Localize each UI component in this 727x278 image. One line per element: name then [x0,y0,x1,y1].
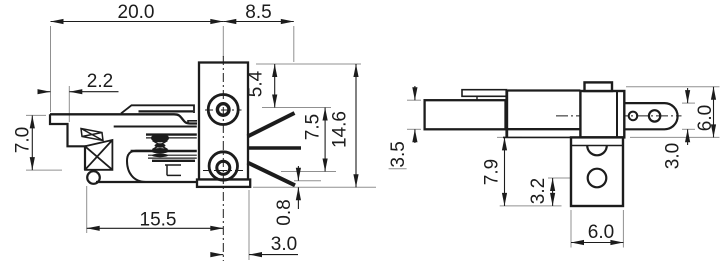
spring coil cross lines [153,141,168,150]
top edge notch at block joint [188,121,197,124]
svg-text:7.9: 7.9 [482,159,503,185]
spring coil ellipse 4 [152,154,168,158]
dimension 7.9 line [504,137,506,206]
contact bar y=158.1 [148,157,197,159]
dimension 20.0 line [51,21,224,23]
svg-text:14.6: 14.6 [330,111,351,148]
right-view extension y=103.1 (pin top, for right 3.0) [682,102,695,104]
upper eyelet inner circle [217,104,229,116]
front rivet circle [87,171,100,184]
contact step lines [165,164,181,166]
spring coil ellipse 3 [151,148,169,154]
right-view extension x=623.4 (for bottom 6.0) [622,210,624,248]
left-view extension line y=187.3 (bottom plane, for 0.8/14.6) [253,186,376,188]
left-view extension line x=249 (block right edge, for 3.0) [248,190,250,260]
left-view extension line x=86.7 (for 15.5) [86,186,88,233]
dimension 14.6 line [355,64,357,187]
dimension 0.8 line [297,166,299,181]
pin large circle [649,110,660,121]
left-view extension line y=180.7 (pin tip top, for 0.8) [294,180,321,182]
lower block notch semicircle [587,146,607,156]
left-view extension line y=171.5 (lower pin plane, for 7.5) [281,171,336,173]
right-view extension y=129.3 (barrel bottom, for 3.5) [389,168,407,170]
terminal block bottom flange [197,180,250,187]
dimension 7.0 line [31,115,33,170]
lower eyelet inner circle [217,161,230,174]
dimension 8.5 line [223,21,293,23]
right-view extension y=137.4 (block bottom, for right 6.0) [630,136,720,138]
lower eyelet outer circle [209,152,237,180]
contact bar y=134.6 [146,133,197,135]
terminal block body [199,63,248,180]
contact bar y=160.8 [152,160,195,162]
lower mount block [571,137,623,206]
barrel rectangle [425,100,506,129]
center block [580,91,624,137]
svg-text:15.5: 15.5 [140,210,177,231]
center block top tab [585,82,613,91]
upper eyelet outer circle [208,95,238,125]
lower eyelet crosshair [203,170,246,172]
center pin arm J-hook [127,151,151,182]
jack body lid chamfer+top [121,105,194,113]
dimension 15.5 line [87,227,224,229]
left-view extension line x=69.3 (front step face, for 2.2) [68,86,70,122]
dimension 6.0 right line [713,87,715,138]
horizontal dash-dot axis [556,115,682,117]
left-view extension line y=115.4 (body top, for 7.0) [26,114,46,116]
mid-section top line [508,89,580,91]
left-view extension line x=50.5 (body left edge, for 20.0) [50,26,52,112]
left-view extension line x=293.8 (pin tip plane, for 8.5) [293,26,295,62]
pin small circle [629,112,638,121]
lower block hole circle [588,169,607,188]
tab tick [476,96,478,100]
dimension 2.2 line [40,91,51,93]
left-view extension line y=64 (top plane, for 14.6/5.4) [256,63,361,65]
dimension 3.2 line [552,178,554,206]
dimension 7.5 line [324,108,326,172]
lower block band line [571,145,623,147]
spring coil ellipse 2 [155,143,166,147]
svg-text:20.0: 20.0 [118,2,155,23]
upper eyelet crosshair [205,109,242,111]
svg-text:3.5: 3.5 [388,141,409,167]
dimension 6.0 bottom line [571,242,623,244]
mid-section lower plane line [503,136,580,138]
center block inner line [616,91,618,137]
svg-text:3.0: 3.0 [271,234,297,255]
flange vertical line [505,90,508,138]
contact bar y=155.2 [148,154,197,156]
contact bar y=151 [131,150,197,152]
svg-text:7.0: 7.0 [13,127,34,153]
right-view extension y=129.3 (pin bottom, for right 3.0) [682,128,695,130]
jack body bottom edge [96,181,197,183]
svg-text:2.2: 2.2 [87,71,113,92]
spring contact box with X brace [85,140,112,170]
right-view extension y=205.9 (lower block bottom, for 7.9/3.2) [500,205,562,207]
svg-text:7.5: 7.5 [303,114,324,140]
right-view extension y=100.2 (barrel top, for 3.5) [407,99,421,101]
svg-text:6.0: 6.0 [588,222,614,243]
svg-text:6.0: 6.0 [695,105,716,131]
dimension 3.5 line [414,86,416,100]
center pin stadium outline [624,103,677,129]
svg-text:8.5: 8.5 [245,2,271,23]
svg-text:3.2: 3.2 [528,178,549,204]
right-view extension y=86.8 (block top, for right 6.0) [626,86,720,88]
dimension 5.4 line [274,64,276,108]
jack body lid plate line [139,110,194,112]
left-view extension line x=223.3 (block centerline top, for 20.0/8.5) [222,26,224,57]
contact bar y=137.9 [146,137,197,139]
dimension 3.0 right line (outside arrows) [687,88,689,103]
front contact flap with cross [81,129,103,141]
barrel top mounting tab [462,90,507,97]
jack body inner line y=126.5 [114,126,197,128]
upper terminal pin [248,113,295,137]
left-view extension line y=107.5 (upper pin plane, for 5.4/7.5) [262,107,331,109]
right-view extension y=178 (hole centerline, for 3.2) [548,177,587,179]
mid-section bottom line [508,128,580,130]
right-view extension y=137.4 (block bottom plane, for 7.9) [497,136,522,138]
right-view extension x=571 (for bottom 6.0) [570,210,572,248]
block vertical dash-dot centerline [222,56,224,261]
dimension 3.0 line (left view) [211,254,223,256]
svg-text:0.8: 0.8 [274,199,295,225]
jack body top edge with rear S-bend [50,114,197,123]
svg-text:3.0: 3.0 [663,143,684,169]
middle terminal pin [248,146,301,150]
jack body front step outline [50,114,85,170]
lower terminal pin [248,163,296,186]
spring coil ellipse 1 [151,134,169,143]
left-view extension line y=170.1 (front lip bottom, for 7.0) [26,169,62,171]
